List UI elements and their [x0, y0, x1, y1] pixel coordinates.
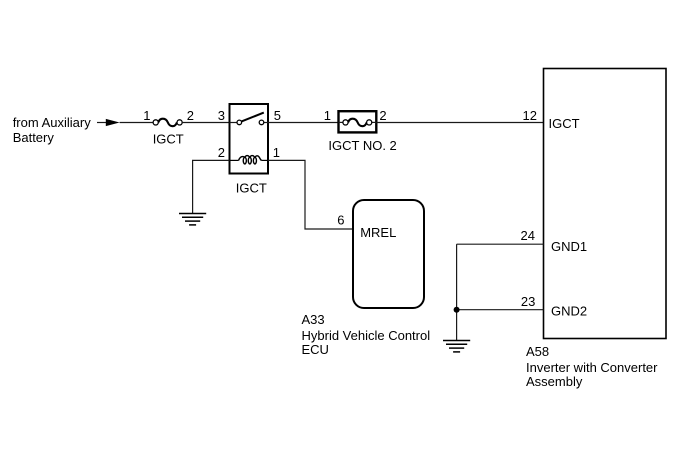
wire coil pin2 to ground	[193, 160, 230, 213]
svg-text:A58: A58	[526, 344, 549, 359]
svg-text:24: 24	[521, 228, 535, 243]
svg-text:2: 2	[218, 145, 225, 160]
svg-text:12: 12	[523, 108, 537, 123]
fuse IGCT NO. 2	[339, 111, 377, 132]
svg-text:A33: A33	[302, 312, 325, 327]
wire relay pin5 to fuse2	[268, 122, 338, 124]
svg-text:from Auxiliary: from Auxiliary	[13, 115, 92, 130]
inverter A58 box	[544, 69, 667, 339]
wire junction down to ground	[456, 244, 458, 340]
svg-text:Battery: Battery	[13, 130, 55, 145]
relay coil	[230, 156, 269, 164]
svg-text:2: 2	[379, 108, 386, 123]
svg-text:Hybrid Vehicle Control: Hybrid Vehicle Control	[302, 328, 431, 343]
svg-text:3: 3	[218, 108, 225, 123]
wire fuse2 to inverter pin 12	[376, 122, 543, 124]
svg-text:ECU: ECU	[302, 342, 329, 357]
wire GND2	[457, 309, 544, 311]
ground (right)	[443, 341, 470, 352]
svg-text:Inverter with Converter: Inverter with Converter	[526, 360, 658, 375]
svg-text:IGCT: IGCT	[236, 180, 267, 195]
wire GND1	[457, 243, 544, 245]
svg-text:GND2: GND2	[551, 304, 587, 319]
svg-text:6: 6	[337, 213, 344, 228]
junction dot	[454, 307, 460, 313]
wire fuse to relay	[182, 122, 229, 124]
fuse IGCT	[153, 119, 182, 127]
wire from battery with arrow	[97, 122, 107, 124]
svg-text:GND1: GND1	[551, 239, 587, 254]
relay IGCT box	[230, 104, 269, 174]
svg-text:1: 1	[324, 108, 331, 123]
svg-text:IGCT: IGCT	[549, 116, 580, 131]
relay switch contacts	[230, 113, 269, 125]
svg-text:MREL: MREL	[360, 225, 396, 240]
svg-text:5: 5	[274, 108, 281, 123]
ground (left)	[179, 214, 206, 225]
svg-text:1: 1	[273, 145, 280, 160]
svg-text:IGCT NO. 2: IGCT NO. 2	[328, 138, 396, 153]
svg-text:Assembly: Assembly	[526, 374, 583, 389]
svg-text:23: 23	[521, 294, 535, 309]
ECU A33 MREL box	[353, 200, 424, 308]
svg-text:IGCT: IGCT	[153, 132, 184, 147]
wire	[120, 122, 154, 124]
wire relay pin1 to MREL pin 6	[268, 160, 353, 229]
svg-text:2: 2	[187, 108, 194, 123]
svg-text:1: 1	[143, 108, 150, 123]
